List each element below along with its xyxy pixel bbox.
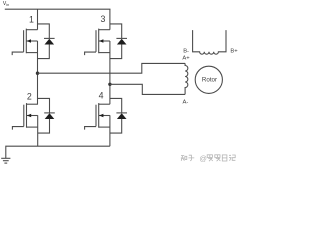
svg-text:A+: A+ xyxy=(182,56,190,62)
svg-text:@: @ xyxy=(199,154,207,163)
svg-text:B+: B+ xyxy=(230,49,238,55)
inductor phase winding B (horizontal coil with leads) xyxy=(193,30,226,54)
transistor 2 (low-side left NMOS) xyxy=(12,98,54,133)
svg-text:A-: A- xyxy=(183,99,189,105)
svg-text:B-: B- xyxy=(183,48,189,54)
junction node B (right bridge midpoint) xyxy=(108,83,111,86)
wire Q1 drain to rail xyxy=(37,9,39,30)
wire Vin top rail xyxy=(5,8,111,10)
svg-text:4: 4 xyxy=(99,90,104,100)
wire node A to phase A+ (steps up) xyxy=(38,63,186,73)
wire Q2 drain from node A xyxy=(37,73,39,104)
svg-text:in: in xyxy=(6,3,9,7)
wire node B to phase A- (steps down) xyxy=(110,84,185,94)
svg-text:3: 3 xyxy=(100,14,105,24)
ground symbol xyxy=(1,158,10,163)
watermark (zhihu @) xyxy=(181,155,195,161)
transistor 1 (high-side left NMOS) xyxy=(12,24,54,59)
svg-text:Rotor: Rotor xyxy=(202,76,217,83)
wire Q3 source to node B xyxy=(109,41,111,84)
rotor (motor rotor circle) xyxy=(195,66,222,93)
svg-text:2: 2 xyxy=(27,92,32,102)
junction node A (left bridge midpoint) xyxy=(36,72,39,75)
wire ground rail xyxy=(6,146,110,158)
transistor 3 (high-side right NMOS) xyxy=(85,24,127,59)
wire Q2 source to ground rail xyxy=(37,115,39,146)
svg-text:1: 1 xyxy=(29,14,34,24)
transistor 4 (low-side right NMOS) xyxy=(85,98,127,133)
wire Q1 source to node A xyxy=(37,41,39,73)
wire Q3 drain to rail corner xyxy=(109,9,111,30)
inductor phase winding A (vertical coil) xyxy=(185,63,188,94)
wire Q4 drain from node B xyxy=(109,84,111,104)
wire Q4 source to ground rail xyxy=(109,115,111,146)
